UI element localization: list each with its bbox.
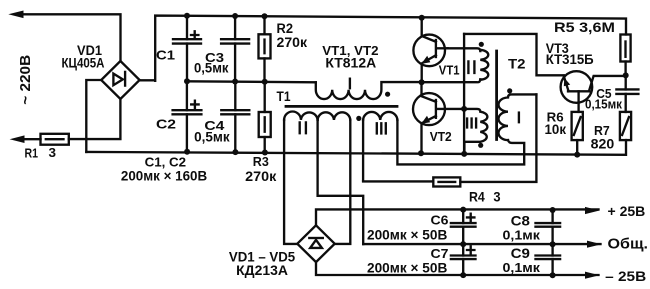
junction dot C9 bottom — [550, 272, 556, 278]
capacitor C5 — [616, 75, 638, 112]
phasing dot T1-I — [385, 92, 390, 97]
label II (T2) — [468, 61, 474, 73]
svg-text:R1: R1 — [25, 145, 39, 160]
wire T1 terminal 3 to bridge right AC — [335, 120, 351, 244]
junction dot base bus on lower bus — [461, 151, 467, 157]
wire T1 terminal 4 to R4 line — [362, 120, 364, 181]
svg-text:C1: C1 — [156, 48, 175, 63]
junction dot C8 top — [550, 207, 556, 213]
wire from base bus top to VT3 emitter — [464, 34, 564, 75]
svg-text:C8: C8 — [511, 214, 531, 229]
capacitor C9 — [536, 244, 561, 275]
svg-text:R3: R3 — [253, 154, 269, 169]
junction dot VT2 emitter on lower bus — [418, 150, 424, 156]
capacitor C8 — [536, 210, 561, 244]
junction dot C2 bottom — [184, 149, 190, 155]
svg-text:270к: 270к — [245, 168, 277, 184]
svg-text:270к: 270к — [277, 34, 308, 50]
svg-text:+ 25В: + 25В — [608, 203, 646, 219]
transistor VT2 — [413, 82, 464, 153]
wire top +rail riser and top bus — [140, 16, 626, 81]
svg-text:820: 820 — [591, 136, 615, 151]
junction dot C4 bottom — [232, 149, 238, 155]
transformer T2 core — [495, 51, 498, 140]
transformer T2 winding I — [499, 94, 537, 140]
resistor R6 10k — [572, 112, 583, 155]
transformer T2 winding III — [464, 109, 487, 154]
junction dot R2 top — [262, 13, 268, 19]
transformer T2 winding II — [480, 50, 488, 80]
junction dot R3 bottom — [262, 150, 268, 156]
label II (T1) — [300, 122, 306, 133]
junction dot C8 bottom — [550, 241, 556, 247]
wire common rail — [363, 243, 600, 245]
svg-text:R5 3,6М: R5 3,6М — [554, 19, 615, 35]
capacitor C3 — [221, 16, 249, 82]
transformer T1 winding II (lower left group) — [284, 112, 318, 120]
svg-text:0,5мк: 0,5мк — [194, 129, 230, 144]
wire bridge bottom corner down to R1 wire — [69, 99, 121, 139]
wire T1 terminal 5 to T2 winding I bottom — [397, 120, 524, 164]
phasing dot T2-I — [507, 88, 512, 93]
junction dot R2 bottom / midbus — [262, 79, 268, 85]
svg-text:VT1: VT1 — [439, 63, 460, 78]
wire bridge left corner to lower bus riser — [86, 80, 101, 152]
svg-text:0,5мк: 0,5мк — [194, 60, 229, 75]
label I (T1 winding) — [349, 79, 351, 89]
svg-text:3: 3 — [493, 189, 500, 204]
junction dot C1 top — [184, 13, 190, 19]
svg-text:– 25В: – 25В — [605, 268, 646, 284]
resistor R2 270k — [259, 16, 271, 82]
resistor R7 820 — [620, 112, 631, 140]
transformer T1 core — [286, 105, 397, 108]
wire T2-I top to R4 riser — [460, 94, 536, 181]
wire T1 terminal 2 jog to common rail — [318, 120, 364, 244]
wire bridge top to +25 rail — [316, 209, 599, 225]
svg-text:КТ315Б: КТ315Б — [546, 52, 594, 67]
svg-text:T1: T1 — [277, 89, 291, 104]
wire lower bus — [86, 140, 626, 155]
transformer T1 winding III (lower right group) — [363, 112, 397, 120]
transistor VT3 — [561, 71, 626, 112]
svg-text:0,1мк: 0,1мк — [503, 260, 541, 275]
phasing dot T1 lower — [356, 116, 361, 121]
transformer T1 winding I (primary top) — [316, 82, 422, 99]
svg-text:200мк × 50В: 200мк × 50В — [367, 260, 447, 276]
junction dot C1 bottom — [184, 78, 190, 84]
wire AC input top with left arrow — [8, 11, 120, 62]
svg-text:3: 3 — [49, 145, 57, 160]
junction dot R6 bottom — [574, 152, 580, 158]
capacitor C2 (electrolytic) — [173, 81, 202, 151]
label III (T2) — [467, 119, 476, 128]
junction dot VT3 collector / R5 / C5 — [623, 72, 629, 78]
junction dot C3 top — [232, 13, 238, 19]
resistor R3 270k — [259, 82, 271, 153]
bridge rectifier VD1 (diamond) — [101, 61, 139, 99]
svg-text:200мк × 50В: 200мк × 50В — [367, 227, 447, 243]
svg-text:0,1мк: 0,1мк — [503, 228, 541, 243]
transistor VT1 — [413, 18, 447, 82]
junction dot C6 bottom — [460, 241, 466, 247]
svg-text:200мк × 160В: 200мк × 160В — [121, 167, 207, 183]
junction dot VT1 collector on top bus — [419, 15, 425, 21]
svg-text:КЦ405А: КЦ405А — [62, 55, 105, 71]
wire VT1 base to T2 winding II top — [448, 48, 481, 51]
resistor R1 (3 ohm) with left arrow — [10, 134, 69, 145]
svg-text:КД213А: КД213А — [236, 263, 288, 278]
wire T1 terminal 1 to lower bridge left corner — [284, 120, 297, 244]
resistor R5 3.6M — [620, 35, 630, 76]
wire T1-I right to T2-II bottom — [422, 79, 481, 82]
svg-text:C2: C2 — [156, 117, 176, 132]
svg-text:КТ812А: КТ812А — [325, 54, 376, 70]
wire bridge bottom to -25 rail — [316, 262, 599, 275]
junction dot C3 bottom — [232, 79, 238, 85]
capacitor C7 (electrolytic) — [451, 244, 476, 275]
junction dot C6 top — [460, 207, 466, 213]
junction dot VT1 emitter / VT2 collector / T1-I — [419, 79, 425, 85]
svg-text:10к: 10к — [545, 122, 567, 137]
svg-text:0,15мк: 0,15мк — [585, 98, 623, 112]
svg-text:R4: R4 — [469, 189, 485, 204]
capacitor C1 (electrolytic) — [173, 16, 201, 82]
capacitor C4 — [221, 82, 249, 153]
wire midpoint bus C1-C2 junction rail — [187, 81, 316, 82]
svg-text:C9: C9 — [511, 246, 530, 261]
capacitor C6 (electrolytic) — [451, 210, 476, 245]
svg-text:C6: C6 — [431, 213, 449, 228]
label I (T2) — [518, 113, 520, 123]
label III (T1) — [377, 123, 386, 133]
bridge rectifier VD1-VD5 (lower diamond) — [297, 225, 334, 262]
svg-text:Общ.: Общ. — [608, 237, 649, 253]
wire base bus vertical x=464 — [463, 34, 465, 154]
svg-text:VT2: VT2 — [430, 129, 452, 144]
resistor R4 (3 ohm) — [363, 177, 460, 186]
phasing dot T2-II — [479, 42, 484, 47]
transformer T1 winding middle group — [318, 112, 351, 120]
phasing dot T2-III — [478, 143, 483, 148]
svg-text:~ 220В: ~ 220В — [18, 55, 34, 105]
svg-text:T2: T2 — [508, 56, 526, 72]
junction dot C7 bottom — [460, 272, 466, 278]
junction dot VT2 base — [461, 106, 467, 112]
